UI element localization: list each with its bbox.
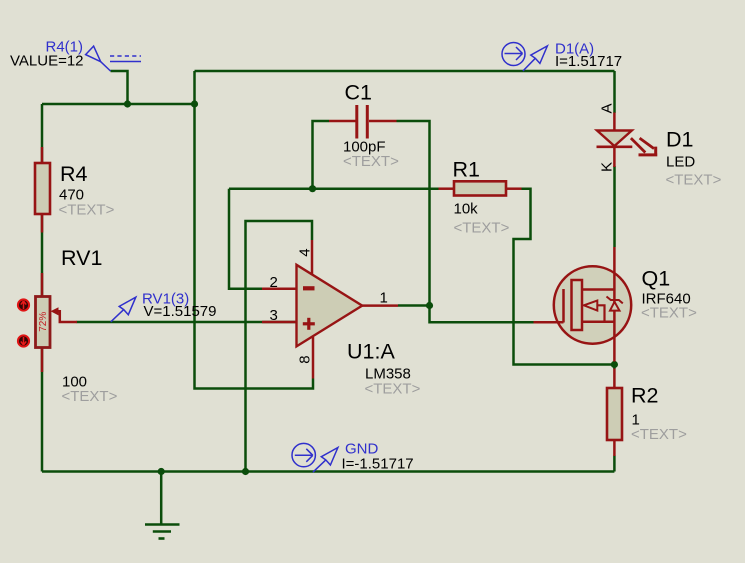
op-amp pin 4 lead (top)	[311, 240, 314, 275]
svg-text:<TEXT>: <TEXT>	[365, 381, 421, 398]
op-amp pin 2 lead (inverting)	[262, 287, 296, 290]
op-amp pin 8 lead (bottom)	[312, 337, 315, 379]
RV1 terminal top	[18, 299, 29, 310]
Q1 drain/source vertical lead	[613, 247, 616, 362]
svg-text:R4: R4	[60, 162, 88, 186]
svg-text:RV1: RV1	[61, 246, 102, 270]
RV1 wiper arrow	[51, 307, 78, 322]
LED D1	[597, 113, 633, 168]
Q1 gate bar	[562, 289, 565, 323]
potentiometer RV1	[36, 273, 51, 372]
node junction Q1 source / R2 / sense wire	[611, 361, 618, 368]
wire C1 left plate branch	[313, 121, 330, 189]
svg-text:LED: LED	[666, 154, 695, 171]
node junction pin4 wire / ground rail	[242, 468, 249, 475]
svg-text:10k: 10k	[454, 201, 479, 218]
node junction at generator/top rail	[124, 100, 131, 107]
svg-text:<TEXT>: <TEXT>	[343, 153, 399, 170]
svg-text:<TEXT>: <TEXT>	[641, 305, 697, 322]
capacitor C1	[329, 105, 397, 139]
wire feedback horizontal y=188.7 to R1	[229, 187, 439, 190]
node junction C1 left / feedback wire	[309, 185, 316, 192]
svg-text:<TEXT>: <TEXT>	[62, 388, 118, 405]
node junction ground rail / ground symbol	[158, 468, 165, 475]
wire source node stub	[613, 361, 616, 369]
wire top rail y=71 to LED	[195, 70, 615, 73]
op-amp U1:A body	[297, 265, 363, 347]
wire C1 right / output node / Q1 gate	[397, 121, 534, 322]
svg-text:D1: D1	[666, 128, 693, 152]
current probe GND symbol	[292, 443, 338, 472]
Q1 drain connect	[582, 288, 616, 291]
resistor R1	[439, 181, 522, 195]
svg-text:<TEXT>: <TEXT>	[631, 426, 687, 443]
svg-text:8: 8	[296, 355, 313, 363]
svg-text:Q1: Q1	[642, 267, 671, 291]
Q1 source connect	[582, 321, 616, 324]
transistor Q1 body circle	[554, 266, 631, 343]
svg-text:I=-1.51717: I=-1.51717	[342, 456, 414, 473]
resistor R2	[607, 369, 622, 457]
RV1 terminal bottom	[18, 335, 29, 346]
op-amp plus symbol	[303, 318, 315, 330]
wire R1 right to Q1 source sense node	[514, 189, 615, 365]
svg-text:<TEXT>: <TEXT>	[454, 220, 510, 237]
svg-text:K: K	[598, 162, 615, 172]
wire op-amp pin 4 to ground rail	[246, 221, 313, 472]
wire V+ rail x=194.5 down to op-amp pin 8	[195, 71, 314, 389]
wire top-left horizontal rail y=104	[42, 103, 195, 106]
wire R2 bottom stub	[613, 456, 616, 472]
svg-text:VALUE=12: VALUE=12	[10, 53, 84, 70]
generator probe R4(1) symbol	[86, 46, 141, 71]
svg-text:I=1.51717: I=1.51717	[555, 53, 622, 70]
op-amp minus symbol	[303, 286, 315, 290]
wire feedback node to op-amp pin 2	[229, 189, 262, 289]
svg-text:1: 1	[380, 289, 388, 306]
Q1 gate lead	[534, 321, 564, 324]
Q1 source arrow	[584, 301, 605, 322]
node junction op-amp output	[426, 302, 433, 309]
LED D1 light arrows	[631, 138, 657, 156]
svg-text:<TEXT>: <TEXT>	[666, 172, 722, 189]
wire left rail x=42 (R4/RV1 branch)	[41, 104, 44, 472]
Q1 body diode	[607, 297, 623, 311]
wire op-amp output pin 1 to node	[398, 304, 430, 307]
voltage probe RV1(3) symbol	[111, 297, 136, 322]
wire RV1 wiper to op-amp pin 3	[77, 321, 297, 324]
svg-text:<TEXT>: <TEXT>	[59, 202, 115, 219]
op-amp pin 3 lead (non-inverting)	[262, 321, 296, 324]
wire ground stem	[160, 472, 163, 524]
node junction V+ rail / y=104 rail	[191, 100, 198, 107]
svg-text:72%: 72%	[38, 312, 49, 332]
svg-text:4: 4	[296, 248, 313, 256]
svg-text:3: 3	[270, 307, 278, 324]
svg-text:2: 2	[270, 274, 278, 291]
wire LED cathode to Q1 drain	[613, 166, 616, 247]
op-amp pin 1 lead (output)	[362, 304, 399, 307]
svg-text:R1: R1	[453, 158, 480, 182]
resistor R4	[35, 147, 50, 233]
Q1 channel bar	[572, 280, 583, 330]
svg-text:A: A	[598, 103, 615, 113]
svg-text:U1:A: U1:A	[347, 340, 395, 364]
svg-text:C1: C1	[345, 81, 372, 105]
ground symbol	[145, 525, 180, 539]
wire LED anode drop	[613, 71, 616, 113]
svg-text:V=1.51579: V=1.51579	[144, 303, 217, 320]
svg-text:R2: R2	[631, 384, 658, 408]
wire from generator R4(1) to top node	[111, 71, 128, 104]
wire bottom ground rail y=471.5	[42, 470, 614, 473]
current probe D1(A) symbol	[502, 43, 547, 72]
